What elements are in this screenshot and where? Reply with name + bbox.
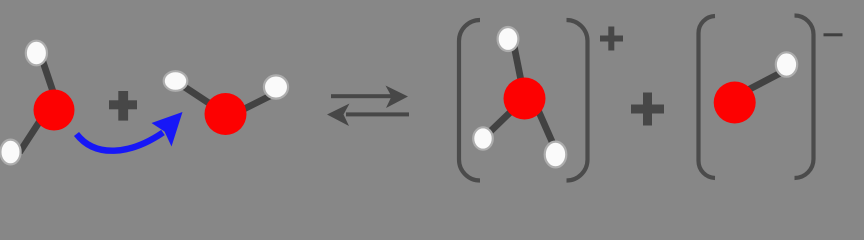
O atom water 2 xyxy=(205,93,247,135)
water molecule 2 xyxy=(164,71,288,135)
superscript minus (hydroxide charge) xyxy=(824,33,843,36)
H atom (upper-left) water 2 xyxy=(164,71,188,91)
O atom hydroxide xyxy=(714,82,756,124)
H atom (bottom-left) water 1 xyxy=(0,140,20,165)
bond O-H (upper-left) water 2 xyxy=(176,81,226,114)
plus sign 2 xyxy=(631,93,664,126)
bond O-H (top) hydronium xyxy=(513,39,525,99)
H atom (bottom-left) hydronium xyxy=(473,127,493,149)
hydroxide ion OH- xyxy=(714,52,798,123)
arrow shaft (curved) xyxy=(77,133,164,151)
blue curved proton-transfer arrow xyxy=(77,112,183,151)
water molecule 1 xyxy=(0,41,74,165)
H atom (bottom-right) hydronium xyxy=(545,142,567,168)
O atom hydronium xyxy=(504,78,546,120)
left bracket (hydroxide) xyxy=(699,16,716,178)
H atom hydroxide xyxy=(776,52,797,76)
right bracket (hydroxide) xyxy=(795,16,814,179)
bond O-H (bottom-right) hydronium xyxy=(533,99,558,155)
equilibrium arrow (reverse, bottom) xyxy=(327,104,409,127)
O atom water 1 xyxy=(34,90,75,131)
bond O-H (upper-right) water 2 xyxy=(230,94,274,116)
H atom (top) hydronium xyxy=(498,27,519,51)
bond O-H (bottom-left) hydronium xyxy=(483,99,525,139)
bond O-H hydroxide xyxy=(737,71,785,96)
right bracket (hydronium) xyxy=(567,20,588,181)
arrow head xyxy=(152,112,183,147)
bond O-H (bottom-left) water 1 xyxy=(20,113,46,152)
left bracket (hydronium) xyxy=(459,20,480,181)
hydronium ion H3O+ xyxy=(473,27,566,167)
H atom (top) water 1 xyxy=(26,41,47,66)
bond O-H (top) water 1 xyxy=(40,53,60,111)
plus sign 1 xyxy=(109,91,137,121)
equilibrium arrow (forward, top) xyxy=(331,86,408,109)
superscript plus (hydronium charge) xyxy=(600,27,623,51)
H atom (upper-right) water 2 xyxy=(264,75,288,98)
